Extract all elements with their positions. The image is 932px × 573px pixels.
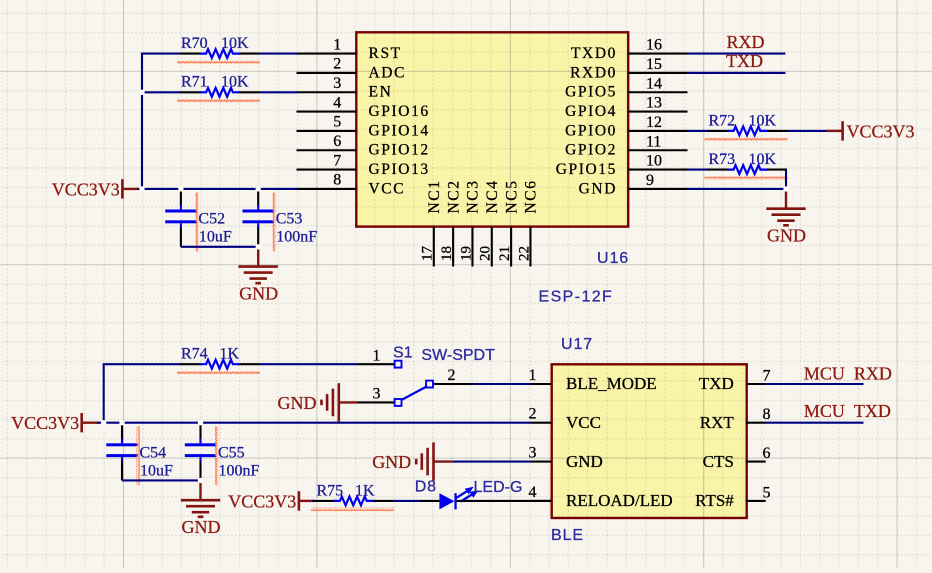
- svg-text:R74: R74: [181, 346, 208, 363]
- junction: [783, 186, 788, 191]
- ground GND (sideways): [278, 383, 358, 421]
- svg-text:GPIO2: GPIO2: [565, 142, 617, 159]
- svg-text:GPIO16: GPIO16: [369, 103, 430, 120]
- resistor R75 1K: [311, 482, 394, 511]
- svg-text:VCC: VCC: [369, 180, 406, 197]
- wire R71 to vertical: [141, 91, 180, 93]
- svg-text:GPIO14: GPIO14: [369, 122, 430, 139]
- resistor R72 10K: [705, 112, 788, 141]
- svg-text:EN: EN: [369, 84, 393, 101]
- svg-text:19: 19: [458, 246, 474, 261]
- svg-text:8: 8: [333, 172, 341, 189]
- svg-text:VCC3V3: VCC3V3: [847, 121, 915, 141]
- svg-text:21: 21: [497, 246, 513, 261]
- svg-text:3: 3: [333, 75, 341, 92]
- svg-text:GPIO13: GPIO13: [369, 161, 430, 178]
- svg-text:10K: 10K: [221, 35, 249, 52]
- svg-text:R70: R70: [181, 35, 208, 52]
- ground GND (sideways): [372, 442, 452, 480]
- ground GND: [766, 189, 806, 246]
- U16 pin 18 NC2: [439, 179, 462, 266]
- U17 pin 6 CTS: [703, 445, 771, 471]
- wire C54 to C55 bottom: [122, 479, 201, 481]
- svg-text:22: 22: [516, 246, 532, 261]
- junction: [139, 90, 144, 95]
- U16 pin 9 GND: [579, 172, 688, 197]
- wire U16 pin16 RXD: [687, 53, 785, 55]
- wire D8 to U17 pin4: [457, 500, 552, 502]
- svg-text:TXD: TXD: [699, 374, 734, 393]
- U16 pin 19 NC3: [458, 179, 481, 266]
- U17 pin 4 RELOAD/LED: [529, 484, 673, 510]
- svg-text:S1: S1: [393, 345, 413, 362]
- svg-text:1K: 1K: [220, 346, 240, 363]
- U17 pin 8 RXT: [700, 406, 771, 432]
- svg-text:GPIO15: GPIO15: [556, 161, 617, 178]
- U17 pin 3 GND: [529, 445, 603, 471]
- svg-text:D8: D8: [415, 479, 437, 496]
- junction: [198, 478, 203, 483]
- ground GND: [181, 480, 221, 537]
- svg-text:10K: 10K: [221, 74, 249, 91]
- svg-text:20: 20: [478, 246, 494, 261]
- power port VCC3V3: [52, 179, 139, 199]
- wire R75 to D8: [393, 500, 419, 502]
- svg-text:5: 5: [763, 484, 771, 501]
- svg-text:10K: 10K: [749, 151, 777, 168]
- svg-text:10K: 10K: [749, 112, 777, 129]
- svg-text:CTS: CTS: [703, 452, 734, 471]
- svg-text:7: 7: [763, 368, 771, 385]
- svg-text:GPIO0: GPIO0: [565, 122, 617, 139]
- power port VCC3V3: [11, 413, 99, 433]
- U17 pin 7 TXD: [699, 368, 771, 394]
- svg-text:10uF: 10uF: [140, 462, 173, 479]
- LED D8 LED-G: [415, 479, 523, 510]
- svg-text:TXD0: TXD0: [571, 45, 617, 62]
- svg-text:7: 7: [333, 152, 341, 169]
- junction: [256, 186, 261, 191]
- U17 pin 5 RTS#: [695, 484, 770, 510]
- svg-text:4: 4: [333, 94, 341, 111]
- wire R74 riser: [103, 364, 105, 423]
- svg-text:R75: R75: [317, 482, 344, 499]
- wire R71 to U16 pin3: [260, 91, 298, 93]
- svg-text:NC2: NC2: [445, 179, 462, 213]
- U16 pin 12 GPIO0: [565, 114, 687, 139]
- wire R70 to U16 pin1: [260, 53, 298, 55]
- svg-text:R73: R73: [709, 151, 736, 168]
- svg-text:RST: RST: [369, 45, 402, 62]
- wire U17 pin7 MCU RXD: [766, 383, 864, 385]
- svg-text:RTS#: RTS#: [695, 491, 734, 510]
- svg-text:NC5: NC5: [503, 179, 520, 213]
- svg-text:10: 10: [646, 153, 662, 170]
- svg-text:100nF: 100nF: [276, 229, 317, 246]
- wire U16 pin15 TXD: [687, 72, 785, 74]
- svg-text:9: 9: [646, 172, 654, 189]
- svg-text:8: 8: [763, 406, 771, 423]
- junction: [139, 186, 144, 191]
- capacitor C54 10uF: [106, 423, 173, 486]
- svg-text:GPIO5: GPIO5: [565, 84, 617, 101]
- svg-text:10uF: 10uF: [199, 229, 232, 246]
- junction: [119, 420, 124, 425]
- capacitor C55 100nF: [185, 423, 260, 486]
- resistor R70 10K: [177, 35, 260, 64]
- svg-text:C52: C52: [198, 211, 225, 228]
- svg-text:BLE: BLE: [551, 527, 584, 544]
- svg-text:C53: C53: [276, 211, 303, 228]
- U16 pin 3 EN: [297, 75, 393, 101]
- U17 pin 2 VCC: [529, 406, 601, 432]
- svg-text:1: 1: [529, 367, 537, 384]
- U16 pin 1 RST: [297, 36, 402, 62]
- svg-text:C55: C55: [218, 444, 245, 461]
- U16 pin 21 NC5: [497, 179, 520, 266]
- svg-text:RELOAD/LED: RELOAD/LED: [566, 491, 673, 510]
- svg-text:SW-SPDT: SW-SPDT: [421, 347, 495, 364]
- svg-text:GND: GND: [579, 180, 617, 197]
- resistor R71 10K: [177, 74, 260, 103]
- svg-text:NC3: NC3: [465, 179, 482, 213]
- wire VCC3V3 to R75: [312, 500, 314, 502]
- svg-text:6: 6: [763, 445, 771, 462]
- svg-text:3: 3: [373, 386, 381, 403]
- svg-text:17: 17: [420, 246, 436, 262]
- svg-text:U17: U17: [561, 336, 593, 353]
- junction: [198, 420, 203, 425]
- svg-text:12: 12: [646, 114, 662, 131]
- svg-text:15: 15: [646, 56, 662, 73]
- svg-text:VCC: VCC: [566, 413, 601, 432]
- wire R74 to S1 pin1: [260, 363, 358, 365]
- wire R73 down to GND net: [785, 170, 787, 189]
- svg-text:100nF: 100nF: [219, 462, 260, 479]
- U16 pin 7 GPIO13: [297, 152, 430, 178]
- resistor R74 1K: [177, 346, 260, 375]
- U16 pin 22 NC6: [516, 179, 539, 266]
- U16 pin 6 GPIO12: [297, 133, 430, 159]
- U17 pin 1 BLE_MODE: [529, 367, 657, 393]
- U16 pin 5 GPIO14: [297, 114, 430, 140]
- U16 pin 20 NC4: [478, 179, 501, 266]
- svg-text:GPIO12: GPIO12: [369, 142, 430, 159]
- wire VCC3V3 rail to U17 pin2: [97, 422, 531, 424]
- svg-text:C54: C54: [140, 444, 167, 461]
- U16 pin 8 VCC: [297, 172, 406, 198]
- svg-text:16: 16: [646, 37, 662, 54]
- svg-text:ADC: ADC: [369, 64, 407, 81]
- svg-text:VCC3V3: VCC3V3: [52, 179, 120, 199]
- wire R72 to VCC3V3: [787, 130, 828, 132]
- svg-text:MCU RXD: MCU RXD: [804, 364, 892, 384]
- svg-text:BLE_MODE: BLE_MODE: [566, 374, 657, 393]
- U16 pin 17 NC1: [420, 179, 443, 266]
- wire R70 to vertical: [141, 53, 180, 55]
- svg-text:4: 4: [529, 484, 537, 501]
- wire U16 pin9 GND: [687, 188, 786, 190]
- wire GND to U17 pin3: [452, 461, 530, 463]
- power port VCC3V3: [827, 121, 915, 141]
- power port VCC3V3: [228, 491, 314, 511]
- U16 pin 2 ADC: [297, 56, 407, 82]
- svg-text:RXD0: RXD0: [570, 64, 617, 81]
- svg-text:6: 6: [333, 133, 341, 150]
- svg-text:2: 2: [448, 367, 456, 384]
- U16 pin 14 GPIO5: [565, 75, 687, 100]
- svg-text:ESP-12F: ESP-12F: [539, 289, 614, 306]
- svg-text:GND: GND: [566, 452, 603, 471]
- svg-text:1: 1: [373, 347, 381, 364]
- wire S1 pin2 to U17 pin1: [473, 383, 530, 385]
- capacitor C53 100nF: [243, 189, 318, 252]
- ground GND: [239, 247, 279, 304]
- svg-text:5: 5: [333, 114, 341, 131]
- wire U16 pin10 to R73: [687, 169, 707, 171]
- svg-text:LED-G: LED-G: [474, 479, 523, 496]
- IC U17 BLE body outline: [552, 364, 747, 518]
- svg-text:2: 2: [529, 406, 537, 423]
- svg-text:GND: GND: [278, 393, 317, 413]
- svg-text:RXD: RXD: [727, 32, 765, 52]
- svg-text:VCC3V3: VCC3V3: [228, 491, 296, 511]
- svg-text:3: 3: [529, 445, 537, 462]
- svg-text:R72: R72: [709, 112, 736, 129]
- svg-text:11: 11: [646, 133, 661, 150]
- svg-text:2: 2: [333, 56, 341, 73]
- svg-text:GND: GND: [767, 226, 806, 246]
- svg-text:GND: GND: [182, 517, 221, 537]
- U16 pin 4 GPIO16: [297, 94, 430, 120]
- junction: [256, 244, 261, 249]
- U16 pin 16 TXD0: [571, 37, 688, 62]
- svg-text:R71: R71: [181, 74, 208, 91]
- svg-text:13: 13: [646, 95, 662, 112]
- switch S1 SW-SPDT: [358, 345, 496, 406]
- svg-text:GPIO4: GPIO4: [565, 103, 617, 120]
- svg-text:1K: 1K: [355, 482, 375, 499]
- svg-text:TXD: TXD: [726, 51, 763, 71]
- IC U16 ESP-12F body outline: [356, 32, 628, 226]
- wire U16 pin12 to R72: [687, 130, 707, 132]
- svg-text:RXT: RXT: [700, 413, 735, 432]
- U16 pin 11 GPIO2: [565, 133, 687, 158]
- resistor R73 10K: [705, 151, 788, 180]
- svg-text:GND: GND: [239, 284, 278, 304]
- U16 pin 15 RXD0: [570, 56, 687, 81]
- svg-text:NC1: NC1: [426, 179, 443, 213]
- svg-text:14: 14: [646, 75, 662, 92]
- U16 pin 10 GPIO15: [556, 153, 688, 178]
- svg-text:NC6: NC6: [523, 179, 540, 213]
- capacitor C52 10uF: [165, 189, 232, 252]
- svg-text:18: 18: [439, 246, 455, 261]
- junction: [178, 186, 183, 191]
- U16 pin 13 GPIO4: [565, 95, 687, 120]
- svg-text:U16: U16: [597, 250, 629, 267]
- svg-text:GND: GND: [372, 452, 411, 472]
- svg-text:1: 1: [333, 36, 341, 53]
- wire U17 pin8 MCU TXD: [766, 422, 864, 424]
- wire C52 to C53 bottom: [181, 246, 258, 248]
- svg-text:VCC3V3: VCC3V3: [11, 413, 79, 433]
- svg-text:NC4: NC4: [484, 179, 501, 213]
- wire vertical VCC3V3 riser: [141, 53, 143, 189]
- wire riser to R74: [103, 363, 180, 365]
- svg-text:MCU TXD: MCU TXD: [804, 401, 891, 421]
- wire VCC3V3 rail to U16 pin8: [137, 188, 298, 190]
- junction: [101, 420, 106, 425]
